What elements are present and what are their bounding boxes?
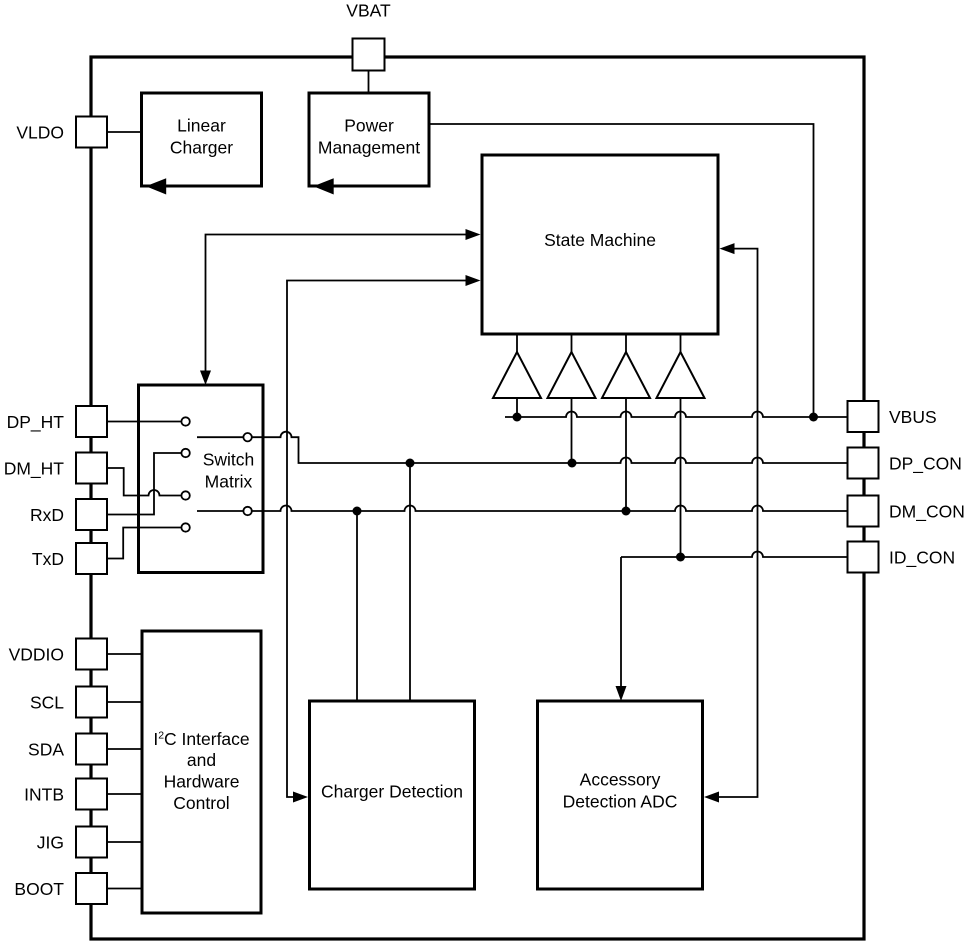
wire VBAT stub (368, 70, 370, 93)
arrowhead into State Machine right (720, 243, 735, 254)
svg-text:RxD: RxD (30, 505, 64, 525)
wire SDA pin to I2C block (107, 748, 142, 750)
wire BOOT pin to I2C block (107, 888, 142, 890)
svg-text:Control: Control (173, 793, 229, 813)
pin SDA (76, 734, 107, 765)
wire DP_CON net (252, 432, 848, 463)
pin VLDO (76, 117, 107, 148)
wire SCL pin to I2C block (107, 701, 142, 703)
svg-text:Matrix: Matrix (205, 472, 253, 492)
arrowhead into State Machine input 1 (466, 229, 481, 240)
svg-text:DP_CON: DP_CON (889, 453, 962, 474)
switch contact L1 (181, 417, 189, 425)
buffer amplifier 3 (602, 352, 650, 398)
block Accessory Detection ADC (538, 701, 703, 889)
block I2C Interface and Hardware Control (142, 631, 261, 913)
wire buffer 3 stubs (625, 334, 627, 511)
wire DP_HT pin to switch contact L1 (107, 421, 181, 423)
svg-text:SCL: SCL (30, 692, 64, 712)
svg-text:DP_HT: DP_HT (7, 412, 65, 433)
wire buffer 4 stubs (680, 334, 682, 557)
svg-text:VBAT: VBAT (346, 1, 391, 21)
arrowhead into Accessory Detection ADC top (616, 686, 627, 701)
svg-text:VBUS: VBUS (889, 407, 937, 427)
pin ID_CON (848, 542, 879, 573)
svg-text:INTB: INTB (24, 784, 64, 804)
svg-text:BOOT: BOOT (14, 879, 64, 899)
wire buffer 2 stubs (571, 334, 573, 463)
junction dot DM_CON charger branch (353, 507, 362, 516)
svg-text:ID_CON: ID_CON (889, 547, 955, 568)
block State Machine (482, 155, 718, 334)
svg-text:I2C Interface: I2C Interface (153, 729, 249, 749)
pin JIG (76, 827, 107, 858)
svg-text:VLDO: VLDO (16, 122, 64, 142)
wire RxD pin to switch contact L2 (107, 453, 181, 515)
buffer amplifier 4 (657, 352, 705, 398)
svg-text:Linear: Linear (177, 116, 226, 136)
svg-text:Management: Management (318, 138, 420, 158)
wire VDDIO pin to I2C block (107, 653, 142, 655)
junction dot VBUS power management (809, 413, 818, 422)
wire DP_CON net branch to Charger Detection (409, 463, 411, 701)
wire TxD pin to switch contact L4 (107, 528, 181, 559)
junction dot DM_CON buffer 3 (622, 507, 631, 516)
pin SCL (76, 687, 107, 718)
svg-text:VDDIO: VDDIO (9, 644, 64, 664)
pin INTB (76, 779, 107, 810)
pin DP_HT (76, 406, 107, 437)
svg-text:Charger: Charger (170, 138, 233, 158)
junction dot VBUS buffer 1 (513, 413, 522, 422)
block Linear Charger (142, 93, 262, 195)
wire node B vertical to State Machine input 2 and Charger Detection (287, 281, 466, 798)
wire VBUS net (505, 412, 848, 418)
wire State Machine right input from Accessory net (719, 249, 758, 797)
buffer amplifier 2 (548, 352, 596, 398)
wire INTB pin to I2C block (107, 793, 142, 795)
svg-text:DM_HT: DM_HT (4, 458, 65, 479)
wire JIG pin to I2C block (107, 841, 142, 843)
svg-text:and: and (187, 750, 216, 770)
wire switch pole bar 2 (197, 510, 243, 512)
switch contact L2 (181, 449, 189, 457)
pin RxD (76, 499, 107, 530)
wire DM_HT pin to switch contact L3 (107, 468, 181, 496)
svg-text:State Machine: State Machine (544, 230, 656, 250)
wire buffer 1 stubs (516, 334, 518, 417)
switch contact L3 (181, 491, 189, 499)
block Charger Detection (310, 701, 475, 889)
buffer amplifier 1 (493, 352, 541, 398)
wire ID_CON net (621, 552, 848, 558)
junction dot ID_CON buffer 4 (676, 553, 685, 562)
svg-text:JIG: JIG (37, 832, 64, 852)
svg-text:DM_CON: DM_CON (889, 501, 965, 522)
switch contact L4 (181, 523, 189, 531)
arrowhead into Accessory Detection ADC right (704, 792, 719, 803)
svg-text:Switch: Switch (203, 450, 255, 470)
pin DP_CON (848, 448, 879, 479)
svg-text:Hardware: Hardware (164, 772, 240, 792)
block Switch Matrix (139, 385, 264, 573)
wire State Machine to Switch Matrix control (206, 235, 467, 372)
svg-text:SDA: SDA (28, 739, 64, 759)
pin VBAT (353, 39, 385, 71)
pin BOOT (76, 873, 107, 904)
svg-text:Charger Detection: Charger Detection (321, 782, 463, 802)
junction dot DP_CON buffer 2 (568, 459, 577, 468)
wire DM_CON net branch to Charger Detection (356, 511, 358, 701)
wire DM_CON net (252, 506, 848, 511)
pin TxD (76, 543, 107, 574)
svg-text:TxD: TxD (32, 549, 64, 569)
pin DM_HT (76, 453, 107, 484)
block Power Management (309, 93, 429, 195)
chip outline U1 (91, 57, 864, 939)
svg-text:Detection ADC: Detection ADC (563, 792, 678, 812)
svg-text:Accessory: Accessory (580, 770, 661, 790)
pin VDDIO (76, 639, 107, 670)
wire VLDO to Linear Charger (107, 131, 142, 133)
wire switch pole bar 1 (197, 436, 243, 438)
pin DM_CON (848, 496, 879, 527)
wire ID_CON branch to Accessory Detection ADC (620, 557, 622, 687)
pin VBUS (848, 401, 879, 432)
svg-text:Power: Power (344, 116, 394, 136)
switch contact M2 (243, 507, 251, 515)
junction dot DP_CON charger branch (406, 459, 415, 468)
wire Power Management output to VBUS net (429, 124, 814, 417)
arrowhead into State Machine input 2 (466, 275, 481, 286)
arrowhead into Switch Matrix top (200, 371, 211, 386)
arrowhead into Charger Detection left (293, 792, 308, 803)
switch contact M1 (243, 433, 251, 441)
